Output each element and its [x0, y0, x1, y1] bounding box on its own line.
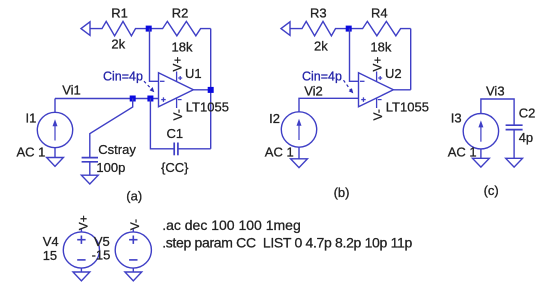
resistor R3 — [290, 21, 349, 35]
svg-text:I1: I1 — [26, 110, 37, 125]
node junction R3/R4 — [346, 26, 352, 32]
ground V4 — [73, 272, 90, 281]
svg-text:Cin=4p: Cin=4p — [302, 70, 342, 84]
svg-text:V-: V- — [171, 109, 185, 120]
wire feedback vertical — [210, 29, 212, 149]
svg-text:R2: R2 — [172, 6, 189, 21]
svg-text:4p: 4p — [519, 130, 533, 145]
svg-text:18k: 18k — [172, 39, 193, 54]
svg-text:V+: V+ — [170, 57, 184, 72]
voltage source V4 — [80, 229, 82, 232]
svg-text:-15: -15 — [92, 248, 111, 263]
svg-text:U1: U1 — [185, 66, 202, 81]
node junction R1/R2 — [146, 26, 152, 32]
op-amp U2 — [359, 72, 394, 109]
wire inverting input — [350, 29, 359, 82]
capacitor C2 — [506, 124, 523, 126]
wire Vi3 — [481, 99, 514, 125]
svg-text:Cin=4p: Cin=4p — [103, 70, 143, 84]
svg-text:.step param CC LIST 0 4.7p 8.: .step param CC LIST 0 4.7p 8.2p 10p 11p — [162, 235, 412, 251]
svg-text:{CC}: {CC} — [161, 160, 189, 175]
current source I1 — [54, 99, 56, 113]
svg-text:V4: V4 — [43, 234, 59, 249]
svg-text:2k: 2k — [111, 36, 125, 51]
current source I2 — [281, 112, 316, 147]
node Cstray tap — [130, 96, 136, 102]
svg-text:AC 1: AC 1 — [17, 144, 46, 159]
svg-text:2k: 2k — [314, 38, 328, 53]
capacitor Cstray — [82, 157, 98, 159]
ground I1 — [47, 158, 64, 167]
svg-text:(b): (b) — [334, 185, 350, 200]
svg-text:R4: R4 — [371, 6, 388, 21]
svg-text:.ac dec 100 100 1meg: .ac dec 100 100 1meg — [162, 217, 301, 233]
arrow (left open port) — [281, 22, 290, 36]
node C1 tap — [147, 96, 153, 102]
svg-text:V+: V+ — [77, 215, 91, 230]
wire output — [393, 89, 410, 91]
svg-text:R3: R3 — [310, 6, 327, 21]
svg-text:U2: U2 — [385, 66, 402, 81]
wire feedback vertical — [410, 29, 412, 90]
svg-text:C2: C2 — [519, 106, 536, 121]
voltage source V5 — [132, 229, 134, 232]
wire inverting input — [150, 29, 159, 82]
wire Vi1 (+ input) — [55, 98, 159, 100]
wire C1 branch — [150, 99, 174, 149]
svg-text:C1: C1 — [167, 126, 184, 141]
current source I3 — [463, 114, 498, 149]
ground I2 — [291, 159, 308, 168]
svg-text:Vi2: Vi2 — [304, 83, 323, 98]
svg-text:15: 15 — [43, 248, 57, 263]
resistor R1 — [90, 21, 149, 35]
arrow (left open port) — [81, 22, 90, 36]
svg-text:Cstray: Cstray — [98, 142, 136, 157]
ground I3 — [473, 158, 490, 167]
ground V5 — [125, 272, 142, 281]
svg-text:(c): (c) — [484, 183, 499, 198]
svg-text:Vi1: Vi1 — [62, 83, 81, 98]
svg-text:V-: V- — [128, 219, 142, 230]
op-amp U1 — [159, 72, 194, 109]
resistor R2 — [149, 21, 211, 35]
svg-text:V-: V- — [371, 109, 385, 120]
svg-text:I2: I2 — [269, 111, 280, 126]
wire to Cstray — [90, 99, 133, 158]
svg-text:I3: I3 — [451, 111, 462, 126]
wire Vi2 (+ input) — [299, 98, 359, 112]
svg-text:AC 1: AC 1 — [265, 145, 294, 160]
ground C2 — [506, 158, 523, 167]
node output junction — [208, 87, 214, 93]
svg-text:(a): (a) — [126, 189, 142, 204]
svg-text:Vi3: Vi3 — [486, 84, 505, 99]
svg-text:100p: 100p — [96, 160, 125, 175]
wire output — [193, 89, 210, 91]
capacitor C1 — [173, 143, 175, 156]
svg-text:LT1055: LT1055 — [386, 100, 429, 115]
svg-text:LT1055: LT1055 — [186, 100, 229, 115]
svg-text:18k: 18k — [370, 39, 391, 54]
ground Cstray — [81, 175, 98, 184]
resistor R4 — [349, 21, 411, 35]
svg-text:V+: V+ — [370, 57, 384, 72]
svg-text:AC 1: AC 1 — [448, 145, 477, 160]
svg-text:R1: R1 — [111, 6, 128, 21]
